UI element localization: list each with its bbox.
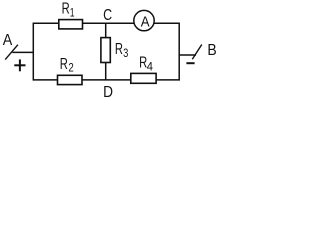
terminal A slash <box>5 45 18 60</box>
svg-text:R: R <box>62 1 70 18</box>
polarity minus at B <box>186 62 194 64</box>
svg-text:1: 1 <box>70 7 75 19</box>
svg-text:3: 3 <box>123 48 128 60</box>
wire middle branch C to D <box>105 23 107 80</box>
resistor R1 <box>59 20 83 29</box>
wire top (node C run, left rail to right rail) <box>33 22 179 24</box>
label R2 <box>60 56 74 74</box>
wire bottom (node D run) <box>33 79 179 81</box>
terminal A wire stub <box>12 51 33 53</box>
resistor R2 <box>58 75 83 84</box>
label R1 <box>62 1 75 20</box>
label R4 <box>139 55 153 74</box>
resistor R4 <box>131 73 156 83</box>
svg-text:R: R <box>60 56 68 73</box>
terminal B wire stub <box>179 54 196 56</box>
label R3 <box>115 41 128 60</box>
svg-text:R: R <box>115 41 123 58</box>
svg-text:4: 4 <box>147 61 154 73</box>
svg-text:D: D <box>103 84 113 101</box>
svg-text:A: A <box>141 14 150 30</box>
svg-text:B: B <box>207 42 216 59</box>
polarity plus at A <box>14 59 25 71</box>
svg-text:2: 2 <box>68 63 73 75</box>
terminal B slash <box>192 45 202 60</box>
wire left rail <box>32 23 34 81</box>
ammeter U1 (circle A on top wire) <box>134 10 154 30</box>
resistor R3 (vertical, between C and D) <box>101 38 110 63</box>
svg-text:A: A <box>3 32 13 49</box>
wire right rail <box>178 23 180 81</box>
svg-text:C: C <box>103 7 112 24</box>
